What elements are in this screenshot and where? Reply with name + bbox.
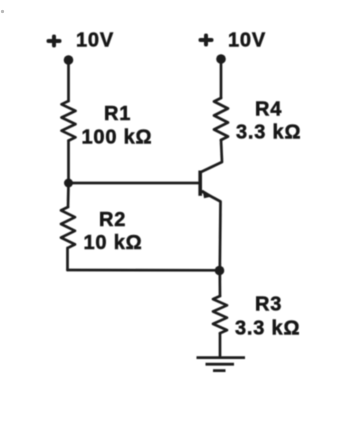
speck artifact top-left (1, 10, 4, 13)
label: + (right supply) (201, 36, 212, 45)
node dot: left +10V terminal (64, 55, 74, 65)
node dot: node A (R1/R2/base junction) (64, 179, 73, 188)
label: + (left supply) (49, 37, 60, 46)
resistor R1 (62, 101, 76, 141)
svg-text:R3: R3 (255, 294, 282, 316)
svg-text:100 kΩ: 100 kΩ (82, 127, 153, 149)
ground (197, 358, 246, 371)
resistor R4 (214, 98, 228, 140)
transistor Q1 emitter arrow (203, 190, 213, 198)
wire: bottom horizontal (corner to emitter node) (68, 269, 220, 272)
wire: emitter to node B (201, 191, 221, 271)
wire: R4 bottom to collector (201, 140, 222, 172)
wire: R3 bottom to ground (219, 333, 222, 356)
node dot: right +10V terminal (216, 54, 226, 64)
resistor R3 (213, 296, 227, 333)
wire: R2 bottom to bottom-left corner (66, 248, 69, 270)
svg-text:R1: R1 (104, 103, 131, 125)
svg-text:R4: R4 (255, 99, 282, 121)
wire: right rail top (node to R4) (220, 59, 223, 98)
node dot: node B (emitter/R3 junction) (215, 266, 225, 276)
wire: node A to R2 top (67, 183, 70, 207)
wire: node B to R3 (218, 271, 221, 297)
svg-text:10 kΩ: 10 kΩ (84, 232, 143, 254)
transistor Q1 base bar (198, 171, 202, 196)
wire: base wire (node A to transistor base) (69, 182, 200, 185)
svg-text:3.3 kΩ: 3.3 kΩ (235, 318, 300, 340)
svg-text:10V: 10V (228, 30, 266, 52)
svg-text:10V: 10V (76, 30, 114, 52)
resistor R2 (61, 207, 75, 248)
wire: left rail top (node to R1) (67, 60, 70, 101)
wire: R1 bottom to node A (67, 141, 70, 183)
svg-text:3.3 kΩ: 3.3 kΩ (236, 122, 301, 144)
svg-text:R2: R2 (99, 209, 126, 231)
